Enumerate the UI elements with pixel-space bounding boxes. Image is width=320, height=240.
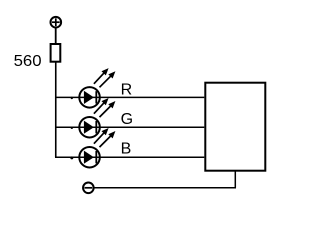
- wire bus to LED R anode: [56, 96, 80, 98]
- wire IC bottom pin down: [234, 171, 236, 188]
- svg-text:G: G: [121, 111, 133, 128]
- bendpoint node row R: [71, 97, 73, 99]
- wire LED B cathode to IC: [99, 156, 204, 158]
- LED D1 (R): [79, 68, 115, 108]
- svg-text:R: R: [121, 81, 133, 98]
- wire bus to LED G anode: [56, 126, 80, 128]
- LED D2 (G): [79, 98, 115, 138]
- +V supply terminal: [51, 17, 62, 28]
- wire supply bus (resistor to LED B row): [55, 62, 57, 158]
- wire +V to resistor: [55, 28, 57, 44]
- wire LED G cathode to IC: [99, 126, 204, 128]
- -V supply terminal: [83, 183, 94, 194]
- svg-text:B: B: [121, 141, 132, 158]
- resistor R1: [51, 44, 61, 62]
- IC U1: [205, 83, 265, 171]
- wire -V to IC bottom pin: [94, 187, 236, 189]
- bendpoint node row G: [71, 127, 73, 129]
- LED D3 (B): [79, 128, 115, 168]
- wire bus corner to LED B anode: [55, 156, 80, 158]
- bendpoint node row B: [70, 156, 73, 159]
- svg-text:560: 560: [14, 53, 42, 70]
- wire LED R cathode to IC: [99, 96, 204, 98]
